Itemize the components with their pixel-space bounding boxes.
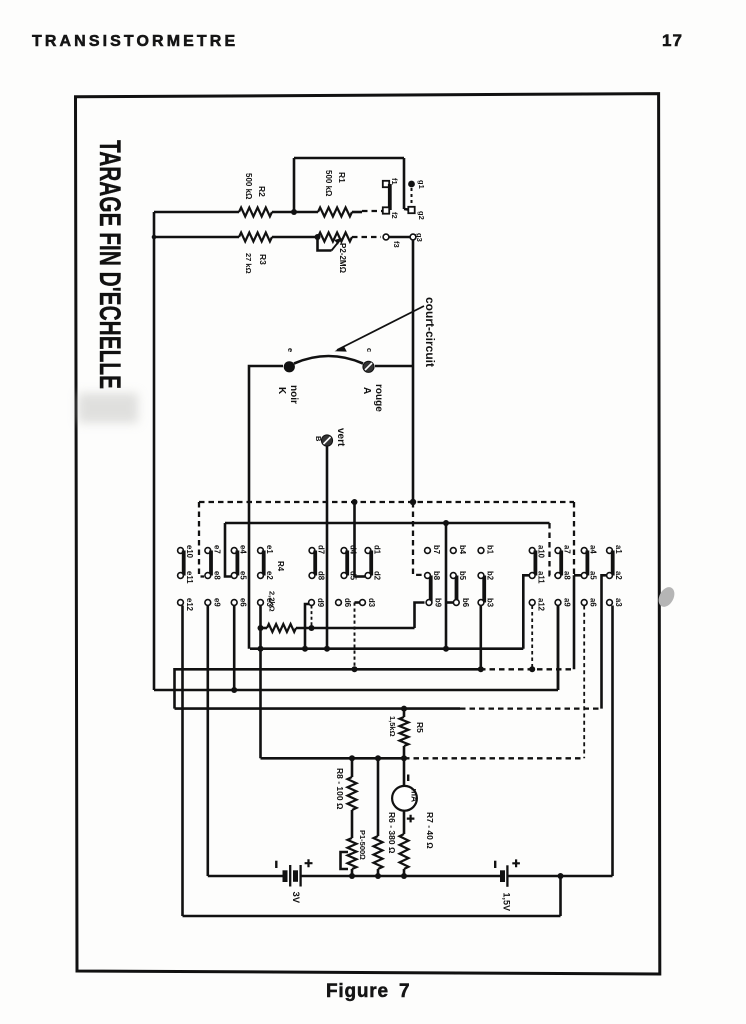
switch bar e4-e5	[235, 551, 239, 576]
terminal d1	[365, 548, 371, 554]
terminal e7	[205, 548, 211, 554]
resistor R5	[400, 717, 409, 746]
svg-text:1,5kΩ: 1,5kΩ	[388, 716, 397, 737]
terminal b8 bar	[429, 576, 433, 603]
svg-text:b1: b1	[486, 545, 495, 555]
resistor R8	[348, 777, 357, 810]
svg-text:b5: b5	[458, 571, 467, 581]
terminal f3	[383, 234, 389, 240]
wire R5 top lead	[403, 709, 406, 717]
svg-text:3V: 3V	[290, 892, 301, 904]
wire jog to b6	[446, 601, 454, 604]
wire b-column vertical b6	[445, 523, 448, 649]
wire a5 jog	[574, 574, 581, 577]
svg-text:rouge: rouge	[373, 384, 384, 412]
wire e12 column drop	[181, 606, 184, 917]
wire bus916 horizontal	[183, 915, 561, 918]
wire A bus drop to a5 upper	[573, 502, 575, 575]
terminal b3	[478, 600, 484, 606]
svg-text:g1: g1	[417, 180, 426, 189]
svg-text:c: c	[365, 348, 374, 352]
terminal d9	[309, 600, 315, 606]
resistor R4	[267, 624, 296, 632]
resistor R6	[374, 836, 383, 869]
node junction d9 drop on R4 line	[309, 625, 315, 631]
terminal e6	[231, 600, 237, 606]
svg-text:noir: noir	[288, 385, 299, 404]
terminal e2	[258, 573, 264, 579]
terminal a3	[607, 600, 613, 606]
label 1,5V battery minus	[494, 861, 496, 868]
resistor R7	[400, 834, 409, 869]
terminal b5	[450, 573, 456, 579]
svg-text:a10: a10	[537, 545, 546, 559]
svg-text:e2: e2	[265, 571, 274, 580]
node junction left bus R3	[152, 235, 157, 240]
svg-text:a7: a7	[563, 545, 572, 554]
node junction d9-stub on K bus	[302, 646, 308, 652]
terminal b7	[425, 548, 431, 554]
node junction R7 on rail	[401, 873, 407, 879]
P1 wiper bracket	[341, 852, 349, 869]
wire box right edge	[403, 158, 406, 209]
wire node to R1	[294, 211, 318, 214]
terminal B vert	[321, 435, 332, 446]
svg-text:Figure7: Figure7	[326, 981, 410, 1002]
svg-text:f2: f2	[390, 212, 399, 219]
wire court-circuit left corner	[249, 366, 283, 502]
switch bar a7-a8	[559, 551, 563, 576]
node junction b-drop on base bus	[443, 520, 449, 526]
label meter plus	[407, 815, 415, 823]
terminal a12	[529, 600, 535, 606]
wire e9 column drop	[207, 606, 210, 877]
terminal f2	[383, 207, 389, 213]
node junction d2 drop on A bus	[352, 499, 358, 505]
wire bus708 horizontal	[175, 707, 461, 710]
wire R6 bottom lead	[377, 869, 380, 876]
svg-text:d1: d1	[373, 545, 382, 555]
wire d3 vertical dashed	[354, 603, 356, 670]
wire solid bus base-net	[225, 522, 550, 525]
wire box to g2	[404, 208, 408, 211]
meter mA	[392, 786, 417, 811]
wire bus758 dashed right to a6	[404, 757, 584, 759]
svg-text:K: K	[276, 387, 287, 395]
node junction d3 on bus669	[352, 666, 358, 672]
svg-text:R7 - 40 Ω: R7 - 40 Ω	[425, 812, 435, 849]
wire b3 drop	[479, 606, 482, 670]
wire d2 vertical	[353, 502, 356, 577]
svg-text:a8: a8	[563, 571, 572, 580]
svg-text:a11: a11	[537, 571, 546, 584]
svg-text:court-circuit: court-circuit	[423, 297, 437, 367]
wire d9 stub	[305, 604, 309, 649]
svg-text:R6 - 380 Ω: R6 - 380 Ω	[387, 812, 397, 854]
wire base bus drop to e5	[225, 523, 231, 577]
wire left bus vertical	[153, 212, 156, 690]
label 3V battery plus	[305, 859, 313, 867]
outer frame border	[76, 94, 660, 974]
wire e6 drop	[233, 606, 236, 691]
wire R8 top lead	[351, 758, 354, 777]
svg-text:d6: d6	[343, 598, 352, 608]
resistor R3	[239, 233, 272, 242]
svg-text:d7: d7	[317, 545, 326, 554]
terminal a2	[607, 573, 613, 579]
svg-text:e7: e7	[212, 545, 221, 554]
wire K bus horizontal	[250, 647, 523, 650]
svg-text:P1-500Ω: P1-500Ω	[358, 830, 367, 860]
switch bar a10-a11	[534, 551, 538, 576]
wire d9 dashed drop	[311, 606, 313, 629]
terminal b5 bar	[455, 576, 459, 603]
wire R4 line to corner	[296, 627, 415, 630]
svg-text:R3: R3	[258, 254, 268, 265]
wire bus916 riser	[559, 876, 562, 916]
terminal e11	[178, 573, 184, 579]
svg-text:a5: a5	[589, 571, 598, 580]
svg-text:a9: a9	[563, 598, 572, 607]
wire R7 bottom lead	[403, 869, 406, 876]
svg-text:TARAGE FIN D'ECHELLE: TARAGE FIN D'ECHELLE	[93, 140, 126, 389]
svg-text:e9: e9	[212, 598, 221, 607]
label 1,5V battery plus	[512, 859, 520, 867]
svg-text:2,2kΩ: 2,2kΩ	[268, 591, 277, 612]
wire box top edge	[294, 157, 404, 160]
wire R1 to f2 solid	[352, 211, 362, 214]
terminal b8	[425, 573, 431, 579]
terminal e noir K	[284, 361, 295, 372]
wire B vertical down	[326, 446, 329, 649]
wire battery rail right	[507, 875, 612, 878]
short-circuit arc e to c	[294, 356, 363, 364]
node junction P1 on rail	[349, 873, 355, 879]
svg-text:a4: a4	[589, 545, 598, 554]
terminal e9	[205, 600, 211, 606]
wire R2 line left segment	[154, 211, 239, 214]
wire bus708 corner up to a2	[602, 575, 607, 708]
svg-text:a12: a12	[537, 598, 546, 612]
svg-text:b3: b3	[486, 598, 495, 608]
terminal a6	[581, 600, 587, 606]
wire a6 dashed drop	[583, 606, 585, 759]
wire P1 bottom lead	[351, 869, 354, 876]
wire noir vertical lower	[248, 502, 251, 649]
svg-text:R8 - 100 Ω: R8 - 100 Ω	[335, 768, 345, 810]
svg-text:R2: R2	[257, 186, 267, 197]
wire jog to d3	[355, 601, 360, 604]
svg-text:d2: d2	[373, 571, 382, 581]
wire a3 drop	[611, 606, 614, 877]
terminal a1	[607, 548, 613, 554]
svg-text:f1: f1	[390, 178, 399, 185]
wire g3 down to collector line	[412, 240, 415, 366]
switch bar e1-e2	[262, 551, 266, 576]
node junction e3-R4	[258, 625, 264, 631]
terminal c rouge A	[363, 361, 374, 372]
node junction e3 on K bus	[258, 646, 264, 652]
node junction R5 bottom	[401, 755, 407, 761]
terminal b2 bar	[482, 576, 486, 603]
wire R6 branch top	[377, 758, 380, 836]
node junction R5 top on bus708	[401, 706, 407, 712]
svg-text:a3: a3	[614, 598, 623, 607]
wire R2 to node	[272, 211, 294, 214]
terminal b2	[478, 573, 484, 579]
terminal e12	[178, 600, 184, 606]
wire K bus corner up to a11	[523, 575, 529, 648]
node junction T on rail	[558, 873, 564, 879]
node junction b6 on K bus	[443, 646, 449, 652]
wire meter to R7	[403, 811, 406, 835]
switch bar f1-f2	[388, 184, 392, 210]
terminal a10	[529, 548, 535, 554]
wire collector A-net to b8	[413, 502, 425, 575]
svg-text:e1: e1	[265, 545, 274, 554]
svg-text:d9: d9	[316, 598, 325, 608]
terminal e1	[258, 548, 264, 554]
wire meter top lead	[403, 758, 406, 786]
potentiometer P1	[348, 838, 357, 869]
node junction P2 wiper tap	[315, 234, 321, 240]
terminal d7	[309, 548, 315, 554]
wire R1 to f2 dashed	[362, 210, 382, 212]
svg-text:27 kΩ: 27 kΩ	[244, 253, 253, 274]
switch bar a4-a5	[586, 551, 590, 576]
svg-text:e: e	[286, 348, 295, 352]
wire f3 to g3	[389, 236, 410, 239]
terminal g2	[408, 207, 414, 213]
wire a9 drop	[557, 606, 560, 691]
switch bar e7-e8	[209, 551, 213, 576]
svg-text:B: B	[314, 436, 323, 442]
switch bar d1-d2	[369, 551, 373, 576]
wire base bus drop to a8	[550, 523, 555, 575]
wire R8 to P1	[351, 810, 354, 838]
potentiometer P2	[318, 233, 352, 242]
svg-text:e6: e6	[239, 598, 248, 607]
svg-text:b7: b7	[432, 545, 441, 554]
node junction R6 top	[375, 755, 381, 761]
svg-text:P2-2MΩ: P2-2MΩ	[338, 243, 347, 274]
terminal a9	[555, 600, 561, 606]
wire R3 to P2	[272, 236, 318, 239]
P2 wiper return wire	[318, 237, 332, 251]
wire jog to d2	[355, 575, 366, 578]
terminal g3	[410, 234, 416, 240]
wire collector vertical down	[412, 366, 415, 502]
svg-text:R5: R5	[415, 722, 425, 733]
wire e3 to R4	[261, 627, 268, 630]
svg-text:b9: b9	[434, 598, 443, 608]
wire bus669 left corner	[175, 669, 481, 708]
terminal d3	[360, 600, 366, 606]
svg-text:a6: a6	[589, 598, 598, 607]
terminal b1	[478, 548, 484, 554]
terminal d8	[309, 573, 315, 579]
wire battery rail left	[208, 875, 283, 878]
svg-text:g3: g3	[415, 233, 424, 242]
battery 1,5V plates	[500, 870, 505, 882]
terminal f1	[383, 181, 389, 187]
svg-text:d4: d4	[349, 545, 358, 555]
wire dashed bus A-net	[199, 501, 574, 503]
wire battery rail middle	[301, 875, 501, 878]
terminal b6	[453, 600, 459, 606]
svg-text:17: 17	[662, 31, 683, 50]
svg-text:mA: mA	[410, 789, 420, 803]
arrow court-circuit	[337, 306, 424, 350]
svg-text:e8: e8	[212, 571, 221, 580]
svg-text:d8: d8	[317, 571, 326, 581]
gray smudge artifact	[655, 584, 677, 609]
node junction collector on A bus	[410, 499, 416, 505]
node junction R2-R1-box	[291, 209, 297, 215]
label meter minus	[407, 775, 409, 782]
battery 3V plates	[283, 870, 288, 882]
node junction R8 top	[349, 755, 355, 761]
terminal a8	[555, 573, 561, 579]
svg-text:e5: e5	[239, 571, 248, 580]
svg-text:b4: b4	[458, 545, 467, 555]
terminal a4	[581, 548, 587, 554]
svg-text:g2: g2	[417, 211, 426, 220]
node junction R6 on rail	[375, 873, 381, 879]
wire c to right bus	[375, 365, 413, 368]
terminal d6	[336, 600, 342, 606]
svg-text:TRANSISTORMETRE: TRANSISTORMETRE	[32, 33, 238, 50]
P2 wiper arrow	[332, 240, 341, 251]
switch bar a1-a2	[611, 551, 615, 576]
svg-text:a2: a2	[614, 571, 623, 580]
wire box left edge	[293, 158, 296, 212]
svg-text:b8: b8	[432, 571, 441, 581]
terminal e5	[231, 573, 237, 579]
wire a12 dashed drop	[531, 606, 533, 670]
wire R3 line left segment	[154, 236, 239, 239]
terminal b9	[426, 600, 432, 606]
terminal a11	[529, 573, 535, 579]
terminal d2	[365, 573, 371, 579]
terminal d4	[341, 548, 347, 554]
resistor R2	[239, 208, 272, 217]
switch bar d4-d5	[345, 551, 349, 576]
wire bus708 dashed right	[460, 707, 602, 709]
svg-text:e12: e12	[185, 598, 194, 612]
node junction B on K bus	[324, 646, 330, 652]
wire bus690 horizontal	[154, 689, 558, 692]
svg-text:R4: R4	[276, 561, 285, 572]
terminal g1	[408, 181, 415, 188]
wire e3 column vertical	[259, 606, 262, 759]
wire R4 corner up to b9	[415, 603, 425, 629]
terminal d5	[341, 573, 347, 579]
wire bus690 corner up to a9	[557, 606, 560, 691]
svg-text:a1: a1	[614, 545, 623, 554]
switch bar d7-d8	[313, 551, 317, 576]
terminal e8	[205, 573, 211, 579]
wire g1-g2 dashed	[411, 188, 413, 206]
svg-text:A: A	[361, 387, 372, 394]
wire R5 bottom lead	[403, 746, 406, 758]
terminal e4	[231, 548, 237, 554]
svg-text:d3: d3	[367, 598, 376, 608]
svg-text:vert: vert	[335, 428, 346, 447]
svg-text:b2: b2	[486, 571, 495, 581]
terminal b4	[450, 548, 456, 554]
terminal e10	[178, 548, 184, 554]
wire bus669 dashed right	[480, 668, 574, 670]
terminal e3	[258, 600, 264, 606]
node junction a12 on bus669	[529, 666, 535, 672]
svg-text:f3: f3	[392, 241, 401, 248]
svg-text:R1: R1	[337, 172, 347, 183]
wire P2 to f3 dashed	[352, 236, 381, 238]
svg-text:500 kΩ: 500 kΩ	[244, 173, 253, 200]
wire a5 drop lower	[573, 575, 576, 669]
svg-text:1,5V: 1,5V	[502, 893, 512, 912]
svg-text:e11: e11	[185, 571, 194, 584]
svg-text:e4: e4	[239, 545, 248, 554]
svg-text:b6: b6	[461, 598, 470, 608]
terminal a5	[581, 573, 587, 579]
label 3V battery minus	[275, 861, 277, 868]
terminal a7	[555, 548, 561, 554]
resistor R1	[318, 208, 352, 217]
wire A bus drop to e8	[199, 502, 204, 577]
svg-text:e10: e10	[185, 545, 194, 559]
switch bar e10-e11	[182, 551, 186, 576]
node junction b3 on bus669	[478, 666, 484, 672]
wire bus758 solid	[261, 757, 405, 760]
svg-text:500 kΩ: 500 kΩ	[324, 170, 333, 197]
node junction e6 on bus690	[231, 687, 237, 693]
